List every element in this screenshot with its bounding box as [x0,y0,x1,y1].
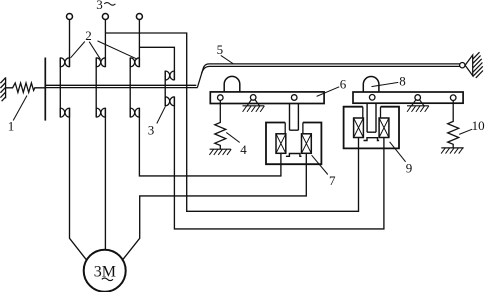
svg-text:8: 8 [399,73,406,88]
svg-text:9: 9 [406,160,413,175]
svg-text:3: 3 [96,0,103,12]
svg-text:7: 7 [329,173,336,188]
svg-text:3: 3 [148,123,155,138]
svg-text:2: 2 [85,28,92,43]
svg-text:4: 4 [240,142,247,157]
svg-text:5: 5 [217,42,224,57]
svg-text:6: 6 [340,77,347,92]
svg-text:10: 10 [472,118,485,133]
svg-text:1: 1 [8,118,15,133]
